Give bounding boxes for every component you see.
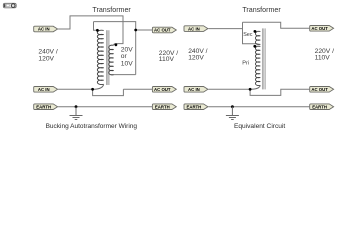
svg-text:Transformer: Transformer [92, 6, 131, 14]
terminal flag AC IN top-left [34, 26, 58, 32]
junction earth (left diagram) [75, 105, 78, 108]
wire tap down from AC OUT junction to bucking winding bottom [135, 30, 137, 75]
svg-text:EARTH: EARTH [312, 104, 327, 109]
svg-text:Bucking Autotransformer Wiring: Bucking Autotransformer Wiring [46, 123, 138, 130]
wire earth bus (left diagram) [58, 106, 153, 108]
svg-text:AC IN: AC IN [38, 27, 50, 32]
wire AC IN top (equivalent circuit) [208, 28, 242, 30]
wire AC IN bottom (equivalent circuit) [208, 88, 250, 90]
svg-text:AC IN: AC IN [188, 26, 200, 31]
primary winding Pri [255, 46, 260, 85]
svg-text:120V: 120V [188, 55, 204, 62]
wire Sec riser and bottom lead-in [243, 22, 258, 44]
bucking winding 20V/10V [109, 45, 114, 75]
svg-text:AC IN: AC IN [38, 87, 50, 92]
terminal flag AC OUT bottom (equivalent circuit) [310, 87, 334, 93]
terminal flag AC OUT bottom-right of left diagram [152, 87, 176, 93]
wire AC IN top to riser over transformer [58, 16, 123, 44]
Sec top lead [255, 30, 260, 32]
bucking winding bottom lead [110, 74, 113, 76]
terminal flag AC IN bottom-left [34, 87, 58, 93]
svg-text:110V: 110V [315, 55, 331, 62]
svg-text:AC OUT: AC OUT [311, 87, 328, 92]
terminal flag EARTH left (equivalent circuit) [184, 104, 208, 110]
svg-text:110V: 110V [159, 56, 175, 63]
wire earth bus (equivalent circuit) [208, 106, 310, 108]
wire to AC OUT bottom [123, 88, 152, 90]
wire primary top rail [94, 22, 136, 30]
wire neutral jog (equivalent circuit) [250, 89, 310, 95]
Pri bottom lead [250, 85, 260, 89]
svg-text:EARTH: EARTH [36, 104, 51, 109]
terminal flag EARTH right of left diagram [152, 104, 176, 110]
svg-text:or: or [121, 53, 128, 60]
wire bucking winding bottom [110, 74, 135, 76]
terminal flag EARTH right (equivalent circuit) [310, 104, 334, 110]
svg-text:AC IN: AC IN [188, 87, 200, 92]
svg-text:EARTH: EARTH [186, 104, 201, 109]
svg-text:AC OUT: AC OUT [154, 87, 171, 92]
terminal flag EARTH left [34, 104, 58, 110]
svg-text:Equivalent Circuit: Equivalent Circuit [234, 123, 285, 130]
ground symbol (left diagram) [70, 107, 83, 120]
terminal flag AC IN top (equivalent circuit) [184, 26, 208, 32]
junction AC OUT tap [134, 29, 137, 32]
toolbar icon top-left [3, 3, 16, 8]
wire AC OUT top [136, 29, 153, 31]
wire neutral jog under transformer [93, 89, 124, 95]
junction earth (equivalent circuit) [231, 105, 234, 108]
junction neutral / Pri bottom (equivalent circuit) [249, 88, 252, 91]
secondary winding Sec [255, 31, 260, 44]
autotransformer main winding [97, 30, 103, 84]
svg-text:10V: 10V [121, 60, 133, 67]
junction Sec top [254, 30, 257, 33]
junction neutral / primary bottom [91, 88, 94, 91]
svg-text:Sec: Sec [243, 32, 253, 38]
junction Pri top [253, 45, 256, 48]
Sec bottom lead [257, 43, 260, 46]
wire AC IN bottom [58, 88, 93, 90]
terminal flag AC IN bottom (equivalent circuit) [184, 87, 208, 93]
svg-text:120V: 120V [38, 55, 54, 62]
main winding bottom lead [93, 84, 104, 89]
wire top rail over transformer to AC OUT [243, 22, 310, 28]
junction primary top [96, 29, 99, 32]
bucking winding top lead [114, 44, 116, 46]
transformer core (right) [262, 28, 265, 89]
terminal flag AC OUT top-right of left diagram [152, 27, 176, 33]
ground symbol (equivalent circuit) [226, 107, 239, 120]
svg-text:Transformer: Transformer [242, 6, 281, 14]
Pri top lead [255, 45, 260, 47]
terminal flag AC OUT top (equivalent circuit) [310, 26, 334, 32]
svg-text:Pri: Pri [242, 61, 249, 67]
svg-text:AC OUT: AC OUT [154, 28, 171, 33]
svg-text:EARTH: EARTH [155, 104, 170, 109]
wire riser to primary top [94, 22, 98, 31]
svg-text:AC OUT: AC OUT [311, 26, 328, 31]
junction bucking winding top [115, 43, 118, 46]
transformer core (left) [107, 30, 109, 85]
